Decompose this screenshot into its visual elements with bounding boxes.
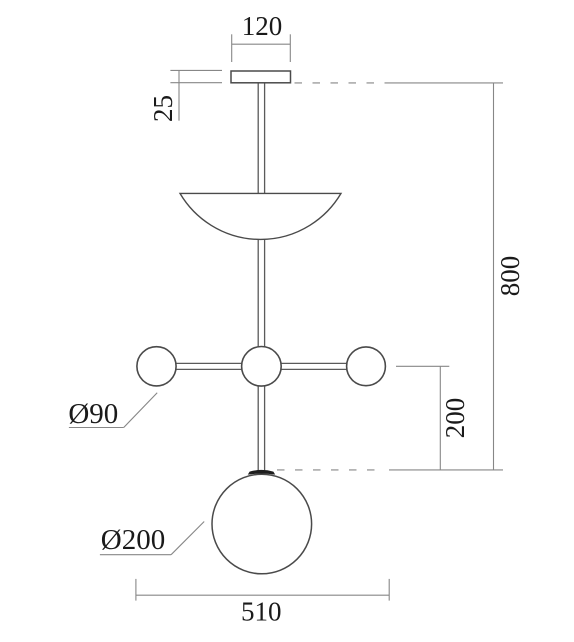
wire: horizontal arm (double line) [157,363,366,369]
svg-text:510: 510 [241,597,282,627]
svg-text:120: 120 [242,11,283,41]
dimension 25: dimension line [178,70,180,120]
left small sphere [137,347,176,386]
svg-text:25: 25 [148,95,178,122]
dimension 510: dimension line [136,579,389,601]
dimension 800: dimension line [493,83,495,470]
wire: suspension rod (double line) [258,83,264,472]
dimension 120: dimension line [232,43,291,45]
dimension 200: dimension line [439,366,441,470]
dimension 200: extension line [396,366,449,470]
right small sphere [347,347,386,386]
dimension 800: top reference line (dashed then solid) [277,83,503,470]
ceiling plate [231,71,291,83]
svg-text:800: 800 [495,256,525,297]
label Ø90: leader line [69,393,157,428]
dimension 510: end ticks [135,579,137,601]
svg-text:200: 200 [440,398,470,439]
dimension 120: extension lines [232,34,291,62]
label Ø200: leader line [100,522,204,555]
big sphere [212,474,312,574]
sphere cap fitting [248,470,275,475]
svg-text:Ø90: Ø90 [68,398,118,430]
bowl shade [180,193,341,239]
center sphere [242,347,282,387]
svg-text:Ø200: Ø200 [101,524,165,556]
dimension 25: extension lines [170,70,222,120]
dimension 800: bottom reference line (dashed then solid) [277,469,385,471]
